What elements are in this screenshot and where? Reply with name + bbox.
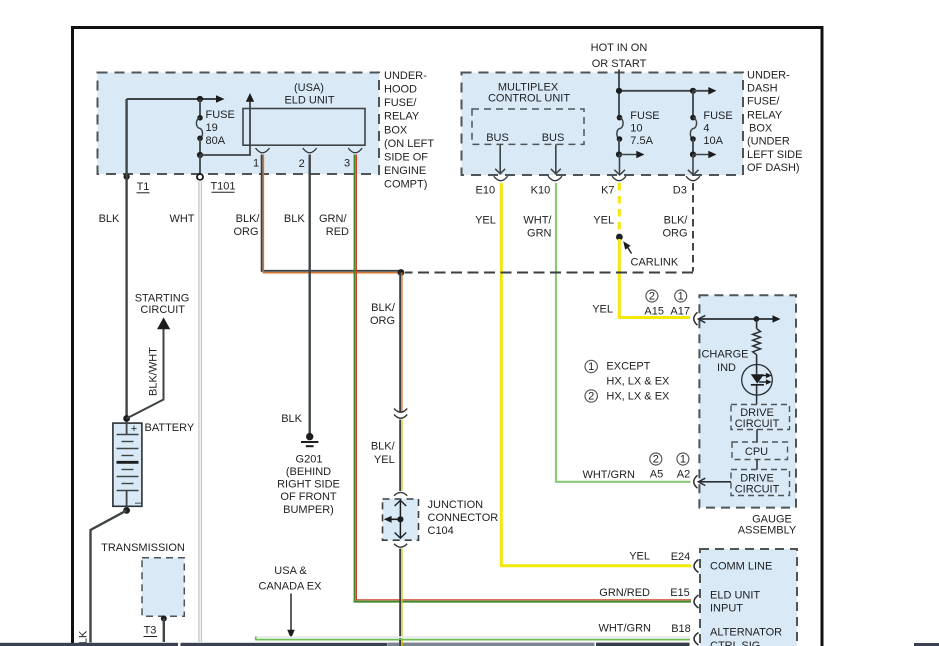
connector E24 [694, 560, 699, 573]
svg-text:FUSE/: FUSE/ [747, 96, 780, 108]
svg-text:E15: E15 [670, 587, 690, 599]
svg-text:INPUT: INPUT [710, 603, 743, 615]
svg-text:B18: B18 [671, 623, 691, 635]
svg-text:BUS: BUS [486, 132, 509, 144]
wire cpu to drive2 [756, 460, 758, 470]
label BLK/ORG (vertical run) [370, 302, 396, 327]
wire BLK/YEL over bottom bar [400, 640, 402, 646]
svg-text:BOX: BOX [749, 123, 773, 135]
svg-text:BATTERY: BATTERY [145, 422, 195, 434]
bottom bar left 2 [181, 643, 388, 646]
under-hood box caption [384, 70, 434, 191]
wire BLK/YEL break to junction connector [400, 420, 402, 492]
svg-text:WHT/GRN: WHT/GRN [598, 623, 651, 635]
alternator/comm-line box [700, 549, 797, 646]
svg-text:HX, LX & EX: HX, LX & EX [606, 376, 670, 388]
svg-text:BLK/: BLK/ [236, 213, 261, 225]
svg-text:EXCEPT: EXCEPT [606, 361, 650, 373]
arrow up into ELD unit [246, 93, 254, 102]
chevron above junction connector [394, 492, 407, 495]
connector K10 [531, 176, 562, 196]
svg-text:A2: A2 [677, 469, 690, 481]
label variant 1 circled (A2) [677, 453, 689, 466]
svg-text:CPU: CPU [745, 446, 768, 458]
node battery negative [123, 507, 130, 514]
svg-text:7.5A: 7.5A [630, 135, 653, 147]
BUS output arrow E10 [495, 144, 505, 173]
fuse F19 (FUSE 19 80A) [196, 99, 234, 158]
svg-text:FUSE: FUSE [703, 110, 732, 122]
svg-text:BLK/: BLK/ [371, 302, 396, 314]
under-dash fuse/relay box [462, 73, 744, 176]
label BLK/YEL [371, 441, 396, 467]
wire break symbol [394, 409, 407, 419]
ground G201 [277, 433, 340, 516]
wire BLK/ORG node A down to break [400, 273, 402, 413]
svg-text:BLK/: BLK/ [664, 214, 689, 226]
node hot/fuse10 [616, 88, 622, 94]
node junction fuse19 top [197, 96, 203, 102]
svg-text:1: 1 [680, 454, 686, 466]
svg-text:A5: A5 [650, 469, 663, 481]
svg-text:YEL: YEL [592, 304, 613, 316]
label variant 2 circled (A15) [646, 290, 658, 303]
svg-text:ELD UNIT: ELD UNIT [284, 95, 334, 107]
arrow fuse10 branch right [619, 151, 645, 159]
svg-text:E24: E24 [671, 551, 691, 563]
wire BLK pin2 to G201 [309, 155, 311, 434]
BUS output arrow K10 [551, 144, 561, 173]
svg-text:–: – [135, 497, 142, 509]
wire YEL E10 down to E24 [501, 183, 691, 566]
svg-text:ELD UNIT: ELD UNIT [710, 590, 760, 602]
svg-text:CIRCUIT: CIRCUIT [735, 484, 780, 496]
wire LED to drive circuit [756, 395, 758, 405]
wire YEL K7 to gauge A15/A17 [619, 239, 690, 318]
svg-text:FUSE/: FUSE/ [384, 97, 417, 109]
svg-text:ALTERNATOR: ALTERNATOR [710, 627, 782, 639]
wire drive1 to cpu [756, 430, 758, 443]
svg-text:IND: IND [717, 362, 736, 374]
svg-text:HX, LX & EX: HX, LX & EX [606, 391, 670, 403]
connector A15/A17 double [694, 312, 698, 325]
svg-text:CIRCUIT: CIRCUIT [140, 304, 185, 316]
wire fuse19 to ELD arrow [200, 101, 250, 155]
svg-text:RELAY: RELAY [384, 111, 420, 123]
arrow starting circuit [157, 317, 170, 329]
svg-text:1: 1 [588, 361, 594, 373]
wire A5/A2 into drive circuit 2 [698, 478, 731, 485]
wire GRN/RED pin3 down to E15 [355, 155, 691, 602]
wire BLK/ORG D3 dashed to node A [692, 183, 694, 272]
border frame [73, 28, 823, 646]
arrow fuse4 branch right [693, 151, 717, 159]
wire hot feed vertical [618, 70, 620, 118]
svg-text:2: 2 [588, 391, 594, 403]
under-hood fuse/relay box [98, 73, 380, 175]
svg-text:RIGHT SIDE: RIGHT SIDE [277, 479, 340, 491]
wire BLK T1 to battery [125, 99, 127, 419]
wire YEL K7 dashed segment [618, 183, 621, 234]
gauge assembly box [699, 295, 796, 536]
svg-text:COMM LINE: COMM LINE [710, 561, 772, 573]
svg-text:CHARGE: CHARGE [701, 349, 748, 361]
pin labels A5 A2 [650, 469, 690, 481]
label HOT IN ON OR START [591, 42, 648, 70]
connector E10 [476, 176, 508, 196]
drive circuit box 1 [731, 405, 790, 431]
svg-text:OF FRONT: OF FRONT [280, 491, 336, 503]
svg-text:A15: A15 [644, 305, 664, 317]
pin 3 connector of ELD unit [344, 148, 362, 170]
svg-text:(BEHIND: (BEHIND [286, 466, 331, 478]
connector D3 [673, 176, 700, 196]
node CARLINK [616, 234, 623, 241]
node BLK/ORG junction A [398, 269, 405, 276]
svg-text:A17: A17 [670, 305, 690, 317]
svg-text:4: 4 [703, 123, 709, 135]
svg-text:T1: T1 [137, 181, 150, 193]
node T1 [124, 174, 150, 193]
svg-text:10: 10 [630, 123, 642, 135]
svg-text:19: 19 [206, 122, 218, 134]
label variant 2 circled (A5) [650, 453, 662, 466]
label WHT/GRN B18 [598, 623, 690, 636]
cpu box [732, 442, 788, 460]
svg-text:WHT: WHT [169, 213, 194, 225]
svg-text:E10: E10 [476, 184, 496, 196]
label BLK/ORG (D3 wire) [662, 214, 688, 239]
svg-text:RED: RED [326, 226, 349, 238]
under-dash box caption [747, 70, 802, 175]
svg-text:D3: D3 [673, 185, 687, 197]
junction connector C104 [383, 499, 499, 540]
transmission box [101, 542, 185, 616]
wire WHT/GRN to B18 (USA & Canada EX) [256, 637, 691, 641]
connector E15 [694, 595, 699, 608]
svg-text:80A: 80A [206, 135, 226, 147]
resistor R1 (charge ind) [753, 319, 761, 364]
bottom bar left [0, 643, 178, 646]
svg-text:T3: T3 [144, 625, 157, 637]
svg-text:2: 2 [653, 454, 659, 466]
svg-text:BLK: BLK [99, 213, 120, 225]
wire WHT/GRN K10 down to A5/A2 [556, 183, 691, 482]
svg-text:DASH: DASH [747, 83, 778, 95]
svg-text:CONTROL UNIT: CONTROL UNIT [488, 93, 570, 105]
svg-text:FUSE: FUSE [630, 110, 659, 122]
legend note 1 [585, 360, 670, 387]
svg-text:WHT/: WHT/ [523, 214, 552, 226]
wire BLK battery negative to bottom [91, 510, 127, 642]
svg-text:GRN/: GRN/ [319, 213, 347, 225]
svg-text:RELAY: RELAY [747, 109, 783, 121]
svg-text:(UNDER: (UNDER [747, 136, 790, 148]
connector B18 [694, 633, 699, 646]
svg-text:CONNECTOR: CONNECTOR [428, 512, 499, 524]
svg-text:1: 1 [253, 158, 259, 170]
svg-text:FUSE: FUSE [206, 109, 235, 121]
connector A5/A2 double [694, 475, 698, 488]
node T3 [144, 616, 167, 637]
multiplex BUS inner box [472, 109, 584, 144]
svg-text:ORG: ORG [370, 315, 395, 327]
drive circuit box 2 [731, 470, 790, 496]
svg-text:BUMPER): BUMPER) [283, 504, 334, 516]
bottom bar right corner [914, 643, 939, 646]
svg-text:SIDE OF: SIDE OF [384, 152, 428, 164]
label GRN/RED E15 [599, 587, 690, 599]
svg-text:HOT IN ON: HOT IN ON [591, 42, 648, 54]
svg-text:OR START: OR START [592, 58, 647, 70]
svg-text:LEFT SIDE: LEFT SIDE [747, 149, 802, 161]
arrow hot feed continues right [693, 87, 717, 95]
wire T3 transmission output [163, 619, 165, 643]
wire fuse19 to T101 [199, 155, 201, 173]
chevron below junction connector [394, 544, 407, 547]
svg-text:YEL: YEL [374, 454, 395, 466]
svg-text:CIRCUIT: CIRCUIT [735, 418, 780, 430]
svg-text:K10: K10 [531, 184, 551, 196]
svg-text:BOX: BOX [384, 124, 408, 136]
svg-text:OF DASH): OF DASH) [747, 162, 800, 174]
label variant 1 circled (A17) [675, 290, 687, 303]
svg-text:BUS: BUS [542, 132, 565, 144]
arrow fuse4 output down D3 [688, 155, 699, 175]
svg-text:1: 1 [678, 291, 684, 303]
wire BLK/YEL junction connector to bottom [400, 549, 402, 646]
arrow fuse10 output down K7 [614, 155, 625, 175]
multiplex control unit label [488, 82, 570, 105]
wire T1 feed horizontal [127, 98, 200, 100]
label BLK/ORG (pin1 wire) [233, 213, 260, 238]
svg-text:3: 3 [344, 158, 350, 170]
svg-text:CANADA EX: CANADA EX [259, 580, 323, 592]
svg-text:WHT/GRN: WHT/GRN [582, 469, 635, 481]
wire charge ind feed with arrows [698, 315, 780, 323]
svg-text:(ON LEFT: (ON LEFT [384, 138, 434, 150]
svg-text:GRN: GRN [527, 228, 552, 240]
svg-text:2: 2 [299, 158, 305, 170]
wire BLK/WHT to starting circuit [127, 329, 164, 419]
svg-text:CARLINK: CARLINK [631, 257, 679, 269]
svg-text:BLK: BLK [281, 413, 302, 425]
pin labels A15 A17 [644, 305, 690, 317]
arrow right of fuse 19 feed [200, 95, 225, 103]
svg-text:USA &: USA & [274, 565, 307, 577]
label CARLINK with arrow [623, 241, 679, 268]
label WHT/GRN (K10 wire) [523, 214, 552, 239]
ELD unit box U1 [243, 82, 365, 145]
svg-text:ENGINE: ENGINE [384, 165, 426, 177]
svg-text:COMPT): COMPT) [384, 179, 427, 191]
node T101 [197, 174, 236, 193]
label YEL E24 [629, 551, 690, 564]
connector K7 [601, 176, 626, 196]
svg-text:ASSEMBLY: ASSEMBLY [738, 525, 797, 537]
svg-text:TRANSMISSION: TRANSMISSION [101, 542, 185, 554]
label CHARGE IND [701, 349, 748, 374]
label USA & CANADA EX with arrow [259, 565, 323, 639]
svg-text:STARTING: STARTING [135, 293, 190, 305]
wire WHT T101 down [199, 180, 202, 642]
legend note 2 [585, 390, 670, 403]
svg-text:T101: T101 [210, 181, 235, 193]
bottom bar middle dark [596, 643, 690, 646]
svg-text:BLK/: BLK/ [371, 441, 396, 453]
svg-text:UNDER-: UNDER- [747, 70, 790, 82]
fuse F4 (FUSE 4 10A) [690, 91, 733, 158]
label GRN/RED (pin3 wire) [319, 213, 349, 238]
svg-text:2: 2 [649, 291, 655, 303]
svg-text:BLK: BLK [284, 213, 305, 225]
label STARTING CIRCUIT [135, 293, 190, 317]
svg-text:C104: C104 [428, 525, 454, 537]
svg-text:G201: G201 [296, 454, 323, 466]
wire BLK/ORG pin1 to node A [262, 155, 401, 273]
svg-text:ORG: ORG [233, 226, 258, 238]
svg-text:(USA): (USA) [294, 82, 324, 94]
fuse F10 (FUSE 10 7.5A) [616, 110, 660, 158]
node charge ind [754, 316, 760, 322]
svg-text:YEL: YEL [475, 214, 496, 226]
svg-text:CTRL SIG: CTRL SIG [710, 640, 760, 646]
battery BT1 [113, 419, 142, 511]
svg-text:10A: 10A [703, 135, 723, 147]
bottom bar middle gray [388, 643, 595, 646]
svg-text:UNDER-: UNDER- [384, 70, 427, 82]
svg-text:K7: K7 [601, 184, 614, 196]
svg-text:+: + [131, 423, 137, 435]
LED charge indicator [742, 364, 773, 395]
node hot/fuse4 [690, 88, 696, 94]
svg-text:GRN/RED: GRN/RED [599, 587, 650, 599]
pin 1 connector of ELD unit [253, 148, 270, 170]
wire hot feed horizontal to fuse4 [619, 90, 693, 92]
svg-text:YEL: YEL [629, 551, 650, 563]
pin 2 connector of ELD unit [299, 148, 317, 170]
svg-text:YEL: YEL [593, 214, 614, 226]
node battery positive [123, 415, 130, 422]
svg-text:BLK/WHT: BLK/WHT [148, 347, 160, 396]
svg-text:ORG: ORG [662, 228, 687, 240]
svg-text:JUNCTION: JUNCTION [428, 499, 484, 511]
svg-text:HOOD: HOOD [384, 84, 417, 96]
